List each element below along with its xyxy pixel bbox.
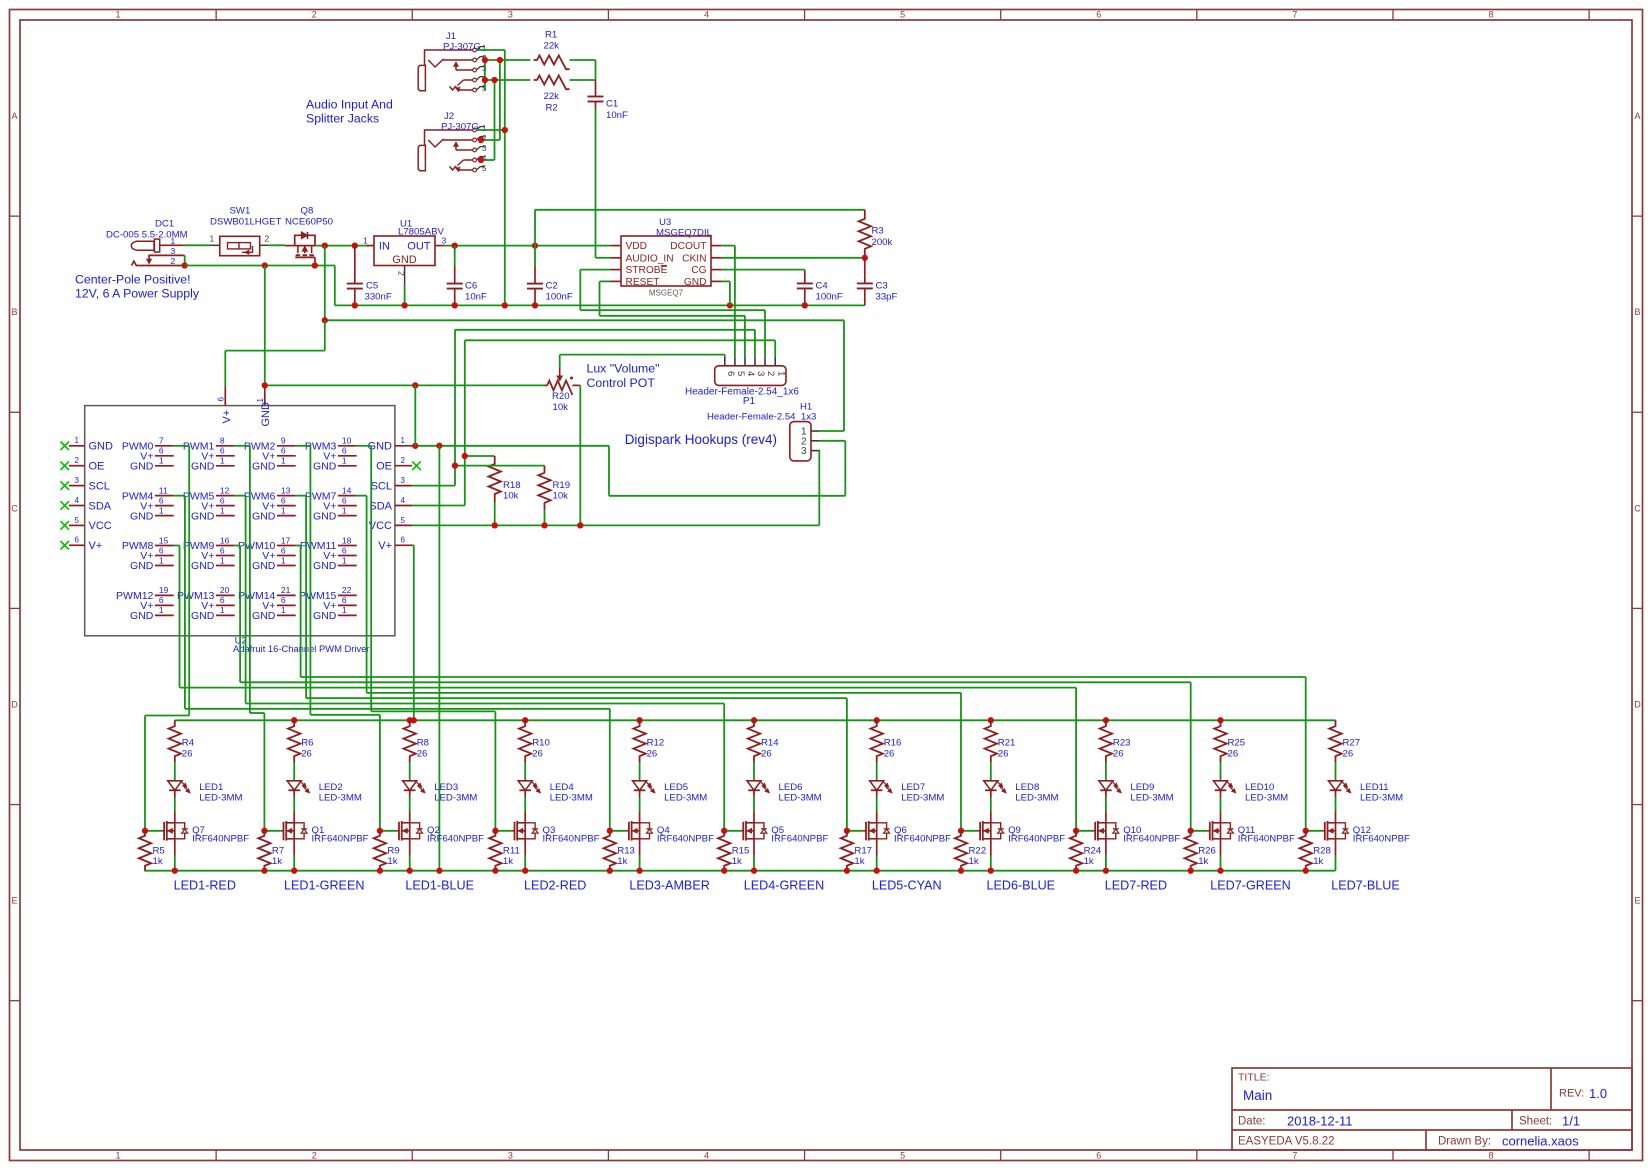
svg-text:7: 7 bbox=[1292, 10, 1297, 20]
svg-text:R14: R14 bbox=[761, 738, 779, 749]
wire PWM3 to channel 4 gate bbox=[357, 445, 372, 447]
LED source ground rail bbox=[144, 870, 1335, 872]
svg-text:R3: R3 bbox=[872, 226, 884, 237]
svg-text:C: C bbox=[1634, 503, 1641, 513]
svg-text:IRF640NPBF: IRF640NPBF bbox=[312, 834, 369, 845]
LED LED1 LED-3MM bbox=[174, 779, 176, 780]
wire gate node to Q12 bbox=[1306, 830, 1322, 832]
svg-text:Main: Main bbox=[1243, 1088, 1272, 1103]
svg-text:IRF640NPBF: IRF640NPBF bbox=[1123, 834, 1180, 845]
svg-text:LED-3MM: LED-3MM bbox=[1015, 793, 1058, 804]
wire Q1 source to rail bbox=[293, 839, 295, 856]
svg-text:Control POT: Control POT bbox=[587, 376, 656, 390]
wire PWM5 to channel 6 gate bbox=[235, 495, 246, 497]
svg-text:LED-3MM: LED-3MM bbox=[199, 793, 242, 804]
svg-text:LED2-RED: LED2-RED bbox=[524, 879, 586, 893]
LED LED9 LED-3MM bbox=[1105, 779, 1107, 780]
wire U3 GND to rail bbox=[722, 280, 730, 282]
header P1 Header-Female-2.54_1x6 bbox=[715, 366, 786, 386]
wire R12 to LED5 bbox=[639, 762, 641, 779]
resistor R7 1k gate pulldown bbox=[258, 831, 270, 871]
wire gate node to Q10 bbox=[1076, 830, 1092, 832]
wire Q9 source to rail bbox=[990, 839, 992, 856]
svg-text:14: 14 bbox=[342, 485, 352, 495]
svg-text:MSGEQ7: MSGEQ7 bbox=[649, 289, 684, 298]
svg-text:6: 6 bbox=[281, 495, 286, 505]
svg-text:R25: R25 bbox=[1228, 738, 1246, 749]
svg-text:Digispark Hookups (rev4): Digispark Hookups (rev4) bbox=[625, 432, 777, 447]
svg-text:26: 26 bbox=[1113, 749, 1124, 760]
svg-text:R18: R18 bbox=[503, 480, 521, 491]
svg-text:1: 1 bbox=[342, 605, 347, 615]
U2 top pin V+ 6 bbox=[224, 386, 226, 405]
resistor R2 22k bbox=[534, 75, 570, 89]
svg-text:1: 1 bbox=[220, 505, 225, 515]
svg-text:GND: GND bbox=[191, 610, 215, 622]
svg-text:10nF: 10nF bbox=[465, 292, 487, 303]
svg-text:26: 26 bbox=[1228, 749, 1239, 760]
svg-text:LED3: LED3 bbox=[434, 782, 458, 793]
svg-text:6: 6 bbox=[159, 595, 164, 605]
svg-text:2: 2 bbox=[312, 1151, 317, 1161]
resistor R27 26 bbox=[1329, 720, 1341, 762]
resistor R5 1k gate pulldown bbox=[139, 831, 151, 871]
svg-text:LED7-GREEN: LED7-GREEN bbox=[1210, 879, 1290, 893]
svg-text:Splitter Jacks: Splitter Jacks bbox=[306, 112, 379, 126]
svg-text:20: 20 bbox=[220, 585, 230, 595]
svg-text:10k: 10k bbox=[553, 402, 569, 413]
transistor Q4 IRF640NPBF bbox=[639, 812, 641, 823]
transistor Q3 IRF640NPBF bbox=[524, 812, 526, 823]
LED LED7 LED-3MM bbox=[876, 779, 878, 780]
svg-text:6: 6 bbox=[401, 536, 406, 545]
svg-text:6: 6 bbox=[159, 545, 164, 555]
svg-text:E: E bbox=[1634, 896, 1640, 906]
svg-text:LED2: LED2 bbox=[319, 782, 343, 793]
svg-text:DC-005 5.5-2.0MM: DC-005 5.5-2.0MM bbox=[106, 230, 188, 241]
svg-text:1: 1 bbox=[775, 371, 786, 376]
svg-text:1: 1 bbox=[401, 436, 406, 445]
wire R21 to LED8 bbox=[990, 762, 992, 779]
wire PWM7 to channel 8 gate bbox=[357, 495, 367, 497]
svg-text:1k: 1k bbox=[153, 856, 163, 867]
svg-text:Audio Input And: Audio Input And bbox=[306, 98, 393, 112]
wire Q4 source to rail bbox=[639, 839, 641, 856]
resistor R15 1k gate pulldown bbox=[718, 831, 730, 871]
svg-text:LED5-CYAN: LED5-CYAN bbox=[872, 879, 942, 893]
resistor R8 26 bbox=[404, 720, 416, 762]
svg-text:LED6: LED6 bbox=[779, 782, 803, 793]
resistor R10 26 bbox=[519, 720, 531, 762]
wire R8 to LED3 bbox=[409, 762, 411, 779]
svg-text:C4: C4 bbox=[816, 281, 829, 292]
svg-text:LED9: LED9 bbox=[1130, 782, 1154, 793]
transistor Q5 IRF640NPBF bbox=[753, 812, 755, 823]
wire gate node to Q3 bbox=[495, 830, 511, 832]
svg-text:LED5: LED5 bbox=[664, 782, 688, 793]
wire R6 to LED2 bbox=[293, 762, 295, 779]
svg-text:IRF640NPBF: IRF640NPBF bbox=[771, 834, 828, 845]
svg-text:R2: R2 bbox=[546, 103, 558, 114]
svg-text:R24: R24 bbox=[1084, 846, 1102, 857]
svg-text:1: 1 bbox=[342, 456, 347, 466]
svg-text:R19: R19 bbox=[553, 480, 571, 491]
svg-text:1: 1 bbox=[342, 505, 347, 515]
svg-text:1: 1 bbox=[256, 398, 265, 403]
svg-text:1k: 1k bbox=[732, 856, 742, 867]
svg-text:GND: GND bbox=[130, 460, 154, 472]
wire gate node to Q2 bbox=[380, 830, 396, 832]
svg-text:1: 1 bbox=[116, 10, 121, 20]
svg-text:6: 6 bbox=[75, 536, 80, 545]
svg-text:26: 26 bbox=[647, 749, 658, 760]
svg-text:8: 8 bbox=[1489, 1151, 1494, 1161]
svg-text:LED-3MM: LED-3MM bbox=[434, 793, 477, 804]
svg-text:330nF: 330nF bbox=[365, 292, 392, 303]
resistor R23 26 bbox=[1100, 720, 1112, 762]
svg-text:R13: R13 bbox=[617, 846, 635, 857]
svg-text:IRF640NPBF: IRF640NPBF bbox=[543, 834, 600, 845]
wire Q10 source to rail bbox=[1105, 839, 1107, 856]
svg-text:VDD: VDD bbox=[626, 241, 648, 252]
svg-text:26: 26 bbox=[761, 749, 772, 760]
svg-text:6: 6 bbox=[342, 545, 347, 555]
resistor R26 1k gate pulldown bbox=[1185, 831, 1197, 871]
svg-text:C6: C6 bbox=[465, 281, 477, 292]
svg-text:GND: GND bbox=[130, 610, 154, 622]
svg-text:1: 1 bbox=[220, 555, 225, 565]
wire Q2 source to rail bbox=[409, 839, 411, 856]
svg-text:GND: GND bbox=[260, 402, 272, 427]
wire gate node to Q9 bbox=[961, 830, 977, 832]
resistor R11 1k gate pulldown bbox=[489, 831, 501, 871]
svg-text:6: 6 bbox=[159, 495, 164, 505]
svg-text:V+: V+ bbox=[89, 540, 103, 552]
svg-text:R27: R27 bbox=[1343, 738, 1361, 749]
svg-text:OE: OE bbox=[376, 461, 392, 473]
svg-text:SW1: SW1 bbox=[230, 206, 251, 217]
no-connect X on right OE pin bbox=[412, 461, 421, 470]
wire J1 pin2 branch down to J1 pin5 bbox=[484, 60, 486, 90]
wire J1 pin1 to J2 pin1 to ground rail bbox=[476, 49, 504, 51]
svg-text:EASYEDA V5.8.22: EASYEDA V5.8.22 bbox=[1238, 1136, 1335, 1148]
wire CKIN to R3/C3 node bbox=[722, 257, 865, 259]
LED LED11 LED-3MM bbox=[1335, 779, 1337, 780]
svg-text:5: 5 bbox=[735, 371, 746, 376]
wire PWM9 to channel 10 gate bbox=[235, 545, 240, 547]
svg-text:26: 26 bbox=[1343, 749, 1354, 760]
svg-text:cornelia.xaos: cornelia.xaos bbox=[1502, 1134, 1579, 1149]
resistor R19 10k pullup bbox=[455, 465, 545, 467]
svg-text:Drawn By:: Drawn By: bbox=[1438, 1136, 1491, 1148]
svg-text:DSWB01LHGET: DSWB01LHGET bbox=[210, 217, 282, 228]
svg-text:26: 26 bbox=[998, 749, 1009, 760]
svg-text:LED11: LED11 bbox=[1360, 782, 1389, 793]
svg-text:R5: R5 bbox=[153, 846, 165, 857]
svg-text:LED3-AMBER: LED3-AMBER bbox=[629, 879, 709, 893]
svg-text:OE: OE bbox=[89, 461, 105, 473]
svg-text:200k: 200k bbox=[872, 237, 893, 248]
svg-text:Center-Pole Positive!: Center-Pole Positive! bbox=[75, 273, 191, 287]
wire LED5 to Q4 drain bbox=[639, 797, 641, 812]
wire J1 pin4 branch down to J2 pin4 bbox=[494, 80, 496, 160]
title block bbox=[1232, 1068, 1632, 1150]
svg-text:R16: R16 bbox=[884, 738, 902, 749]
svg-text:R9: R9 bbox=[387, 846, 399, 857]
svg-text:LED-3MM: LED-3MM bbox=[664, 793, 707, 804]
svg-text:R23: R23 bbox=[1113, 738, 1131, 749]
svg-text:26: 26 bbox=[417, 749, 428, 760]
svg-text:3: 3 bbox=[801, 446, 807, 457]
svg-text:10nF: 10nF bbox=[606, 110, 628, 121]
svg-text:R15: R15 bbox=[732, 846, 750, 857]
svg-text:1: 1 bbox=[210, 234, 215, 244]
svg-text:LED8: LED8 bbox=[1015, 782, 1039, 793]
svg-text:LED-3MM: LED-3MM bbox=[1130, 793, 1173, 804]
svg-text:26: 26 bbox=[182, 749, 193, 760]
resistor R1 22k bbox=[534, 55, 570, 69]
svg-text:1: 1 bbox=[159, 555, 164, 565]
svg-text:GND: GND bbox=[313, 610, 337, 622]
svg-text:LED4-GREEN: LED4-GREEN bbox=[744, 879, 824, 893]
wire U2 SCL to P1 pin3 bbox=[412, 485, 455, 487]
svg-text:R12: R12 bbox=[647, 738, 665, 749]
transistor Q12 IRF640NPBF bbox=[1335, 812, 1337, 823]
svg-text:15: 15 bbox=[159, 535, 169, 545]
resistor R4 26 bbox=[169, 720, 181, 762]
svg-text:22k: 22k bbox=[544, 91, 560, 102]
svg-text:1: 1 bbox=[159, 456, 164, 466]
svg-text:8: 8 bbox=[1489, 10, 1494, 20]
svg-text:GND: GND bbox=[252, 610, 276, 622]
capacitor C3 33pF bbox=[864, 258, 866, 284]
wire R1 to C1 node bbox=[570, 59, 596, 61]
svg-text:5: 5 bbox=[900, 1151, 905, 1161]
svg-text:IRF640NPBF: IRF640NPBF bbox=[657, 834, 714, 845]
svg-text:R6: R6 bbox=[301, 738, 313, 749]
svg-text:1.0: 1.0 bbox=[1589, 1086, 1607, 1101]
svg-text:4: 4 bbox=[401, 496, 406, 505]
svg-text:NCE60P50: NCE60P50 bbox=[285, 217, 333, 228]
svg-text:DCOUT: DCOUT bbox=[670, 241, 706, 252]
svg-text:LED-3MM: LED-3MM bbox=[779, 793, 822, 804]
svg-text:E: E bbox=[11, 896, 17, 906]
svg-text:R10: R10 bbox=[532, 738, 550, 749]
svg-text:J1: J1 bbox=[446, 31, 456, 42]
svg-text:1: 1 bbox=[363, 235, 368, 245]
svg-text:1k: 1k bbox=[1313, 856, 1323, 867]
svg-text:C: C bbox=[11, 503, 18, 513]
svg-text:10k: 10k bbox=[553, 491, 569, 502]
wire gate node to Q4 bbox=[610, 830, 626, 832]
svg-text:CG: CG bbox=[691, 265, 706, 276]
resistor R21 26 bbox=[985, 720, 997, 762]
svg-text:3: 3 bbox=[482, 144, 487, 153]
svg-text:LED-3MM: LED-3MM bbox=[550, 793, 593, 804]
resistor R25 26 bbox=[1214, 720, 1226, 762]
wire PWM1 to channel 2 gate bbox=[235, 445, 250, 447]
wire CG to C4 bbox=[722, 269, 805, 271]
svg-text:R4: R4 bbox=[182, 738, 195, 749]
U1 GND pin 2 bbox=[404, 266, 406, 285]
svg-text:1/1: 1/1 bbox=[1562, 1114, 1580, 1129]
wire U2 right GND pin net bbox=[412, 445, 609, 447]
U2 right pins 1-6 bbox=[395, 445, 412, 447]
resistor R3 200k bbox=[535, 209, 865, 211]
svg-text:A: A bbox=[1634, 111, 1640, 121]
wire R23 to LED9 bbox=[1105, 762, 1107, 779]
resistor R13 1k gate pulldown bbox=[604, 831, 616, 871]
wire LED9 to Q10 drain bbox=[1105, 797, 1107, 812]
transistor Q2 IRF640NPBF bbox=[409, 812, 411, 823]
svg-text:1k: 1k bbox=[387, 856, 397, 867]
wire LED8 to Q9 drain bbox=[990, 797, 992, 812]
svg-text:R20: R20 bbox=[552, 391, 570, 402]
svg-text:2: 2 bbox=[265, 234, 270, 244]
svg-text:26: 26 bbox=[532, 749, 543, 760]
svg-text:LED6-BLUE: LED6-BLUE bbox=[986, 879, 1055, 893]
svg-text:PJ-307G: PJ-307G bbox=[441, 122, 479, 133]
svg-text:R26: R26 bbox=[1198, 846, 1216, 857]
wire gate node to Q11 bbox=[1191, 830, 1207, 832]
svg-text:26: 26 bbox=[884, 749, 895, 760]
svg-text:3: 3 bbox=[508, 10, 513, 20]
svg-text:R7: R7 bbox=[272, 846, 284, 857]
svg-text:SCL: SCL bbox=[371, 480, 392, 492]
svg-text:6: 6 bbox=[220, 595, 225, 605]
wire STROBE to P1 pin2 bbox=[580, 269, 610, 271]
wire DC1 pin1 to SW1 bbox=[184, 244, 210, 246]
svg-text:22: 22 bbox=[342, 585, 352, 595]
wire J1 pin2 branch down to J2 pin2 bbox=[499, 60, 501, 140]
wire LED2 to Q1 drain bbox=[293, 797, 295, 812]
wire U2 SDA to P1 pin1 bbox=[412, 505, 465, 507]
svg-text:IRF640NPBF: IRF640NPBF bbox=[1353, 834, 1410, 845]
wire J2 pin1 bbox=[476, 129, 504, 131]
svg-text:LED10: LED10 bbox=[1245, 782, 1274, 793]
12V distribution wire to H1 pin1 bbox=[325, 319, 844, 321]
svg-text:R21: R21 bbox=[998, 738, 1016, 749]
transistor Q9 IRF640NPBF bbox=[990, 812, 992, 823]
svg-text:GND: GND bbox=[313, 460, 337, 472]
svg-text:LED7-RED: LED7-RED bbox=[1105, 879, 1167, 893]
svg-text:R28: R28 bbox=[1313, 846, 1331, 857]
resistor R14 26 bbox=[748, 720, 760, 762]
svg-text:PJ-307G: PJ-307G bbox=[443, 42, 481, 53]
capacitor C5 330nF bbox=[324, 246, 326, 321]
wire LED3 to Q2 drain bbox=[409, 797, 411, 812]
resistor R18 10k pullup bbox=[465, 455, 495, 457]
wire Q3 source to rail bbox=[524, 839, 526, 856]
svg-text:10k: 10k bbox=[503, 491, 519, 502]
svg-text:1: 1 bbox=[220, 456, 225, 466]
svg-text:B: B bbox=[1634, 307, 1640, 317]
transistor Q6 IRF640NPBF bbox=[876, 812, 878, 823]
LED LED6 LED-3MM bbox=[753, 779, 755, 780]
wire J1 pin2 to R1 bbox=[485, 59, 531, 61]
svg-text:GND: GND bbox=[130, 560, 154, 572]
svg-text:10: 10 bbox=[342, 436, 352, 446]
svg-text:LED1-RED: LED1-RED bbox=[174, 879, 236, 893]
svg-text:R1: R1 bbox=[545, 30, 557, 41]
svg-text:D: D bbox=[1634, 699, 1641, 709]
svg-text:12: 12 bbox=[220, 485, 230, 495]
wire PWM6 to channel 7 gate bbox=[296, 495, 306, 497]
svg-text:6: 6 bbox=[217, 397, 226, 402]
svg-text:OUT: OUT bbox=[407, 241, 431, 253]
svg-text:1: 1 bbox=[281, 605, 286, 615]
wire Q7 source to rail bbox=[174, 839, 176, 856]
svg-text:VCC: VCC bbox=[369, 520, 392, 532]
wire R25 to LED10 bbox=[1220, 762, 1222, 779]
wire Q8 drain to U1 IN bbox=[315, 245, 366, 247]
wire U1 OUT 5V rail bbox=[445, 245, 611, 247]
wire PWM10 to channel 11 gate bbox=[296, 545, 301, 547]
svg-text:3: 3 bbox=[442, 235, 447, 245]
wire gate node to Q7 bbox=[145, 830, 161, 832]
module U2 Adafruit 16-Channel PWM Driver bbox=[85, 406, 395, 636]
svg-text:1: 1 bbox=[116, 1151, 121, 1161]
LED LED3 LED-3MM bbox=[409, 779, 411, 780]
U2 top pin GND 1 bbox=[264, 386, 266, 405]
wire pot wiper to P1 pin6 bbox=[560, 354, 725, 356]
svg-text:5: 5 bbox=[900, 10, 905, 20]
svg-text:5: 5 bbox=[482, 164, 487, 173]
svg-text:GND: GND bbox=[392, 254, 417, 266]
LED supply rail 12V bbox=[175, 719, 1336, 721]
svg-text:5: 5 bbox=[401, 516, 406, 525]
LED LED8 LED-3MM bbox=[990, 779, 992, 780]
resistor R24 1k gate pulldown bbox=[1070, 831, 1082, 871]
svg-text:R17: R17 bbox=[854, 846, 872, 857]
svg-text:6: 6 bbox=[342, 446, 347, 456]
svg-text:6: 6 bbox=[281, 595, 286, 605]
capacitor C2 100nF bbox=[534, 246, 536, 266]
transistor Q10 IRF640NPBF bbox=[1105, 812, 1107, 823]
svg-text:C3: C3 bbox=[876, 281, 888, 292]
svg-text:IN: IN bbox=[379, 241, 390, 253]
svg-text:13: 13 bbox=[281, 485, 291, 495]
wire PWM2 to channel 3 gate bbox=[296, 445, 311, 447]
svg-text:SDA: SDA bbox=[89, 500, 112, 512]
audio jack J1 PJ-307G bbox=[418, 65, 425, 90]
wire LED1 to Q7 drain bbox=[174, 797, 176, 812]
wire gate node to Q5 bbox=[724, 830, 740, 832]
svg-text:6: 6 bbox=[342, 495, 347, 505]
svg-text:6: 6 bbox=[281, 545, 286, 555]
LED LED10 LED-3MM bbox=[1220, 779, 1222, 780]
svg-text:2: 2 bbox=[312, 10, 317, 20]
svg-text:REV:: REV: bbox=[1559, 1088, 1584, 1100]
wire gate node to Q6 bbox=[847, 830, 863, 832]
svg-text:4: 4 bbox=[704, 10, 709, 20]
svg-text:33pF: 33pF bbox=[876, 292, 898, 303]
svg-text:IRF640NPBF: IRF640NPBF bbox=[1238, 834, 1295, 845]
svg-text:1: 1 bbox=[171, 236, 176, 246]
svg-text:LED7-BLUE: LED7-BLUE bbox=[1331, 879, 1400, 893]
svg-text:CKIN: CKIN bbox=[682, 253, 706, 264]
svg-text:4: 4 bbox=[75, 496, 80, 505]
svg-text:R8: R8 bbox=[417, 738, 429, 749]
U2 left no-connect pins 1-6 bbox=[60, 442, 69, 451]
resistor R17 1k gate pulldown bbox=[841, 831, 853, 871]
svg-text:2: 2 bbox=[171, 256, 176, 266]
svg-text:12V, 6 A Power Supply: 12V, 6 A Power Supply bbox=[75, 287, 200, 301]
svg-text:3: 3 bbox=[755, 371, 766, 376]
wire LED7 to Q6 drain bbox=[876, 797, 878, 812]
transistor Q7 IRF640NPBF bbox=[174, 812, 176, 823]
svg-text:3: 3 bbox=[401, 476, 406, 485]
